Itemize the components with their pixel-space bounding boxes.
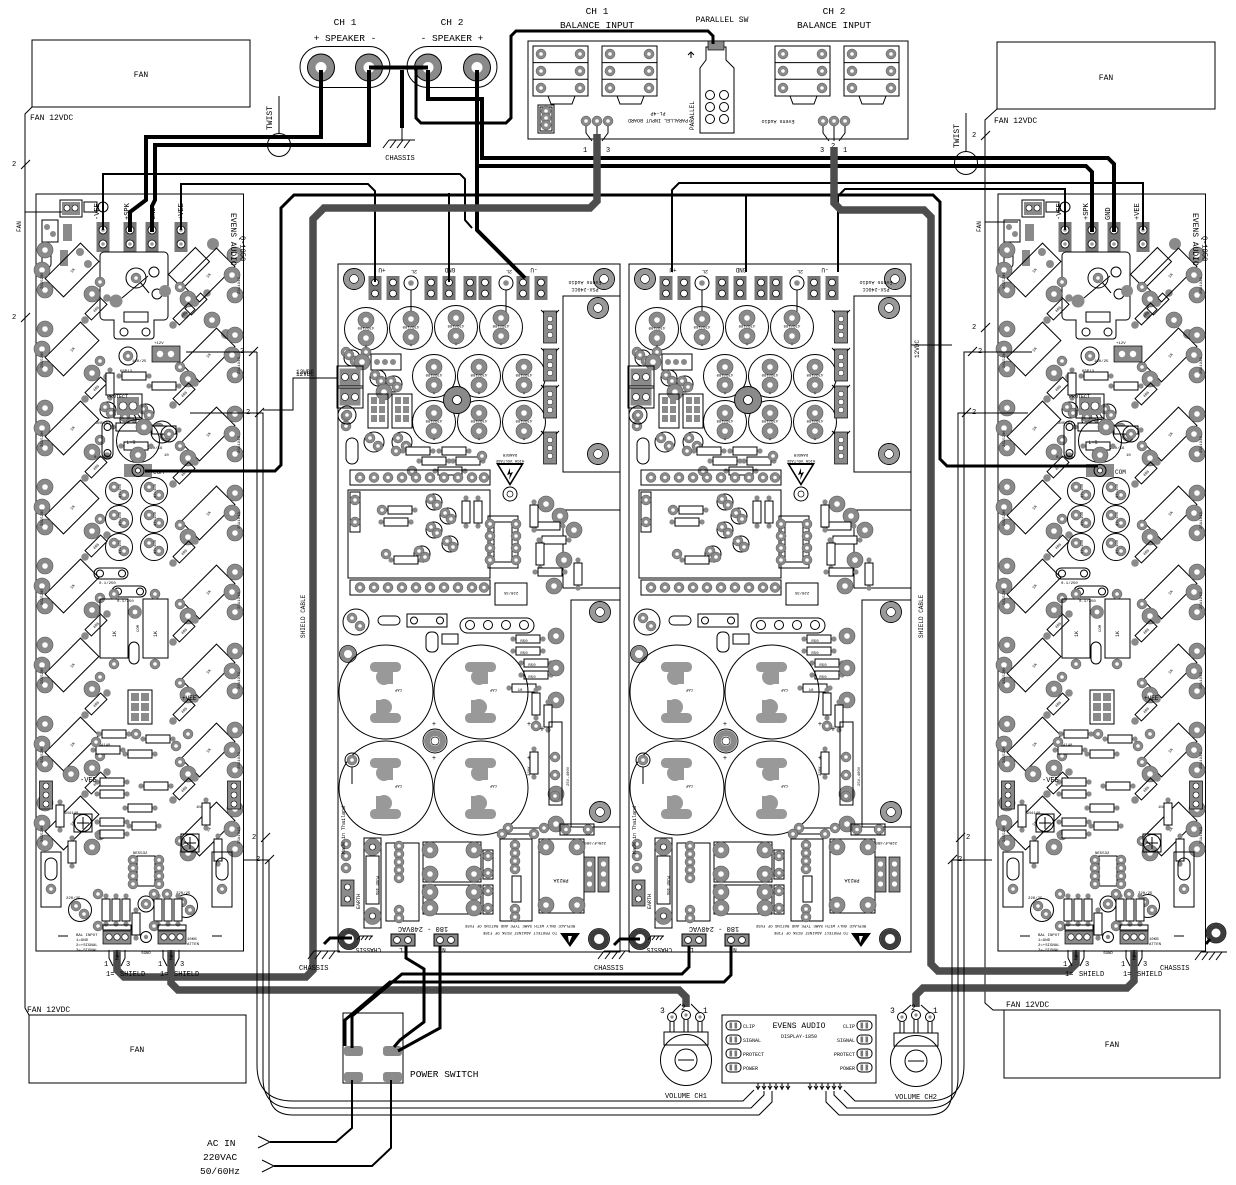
pins display header right <box>808 1083 842 1090</box>
pins right board atten header <box>1121 950 1162 979</box>
board PL-4P parallel input board outline <box>528 41 908 139</box>
svg-text:3=-SIGNAL: 3=-SIGNAL <box>1038 949 1060 953</box>
svg-text:2=+SIGNAL: 2=+SIGNAL <box>1038 944 1060 948</box>
svg-text:1: 1 <box>703 1007 708 1016</box>
svg-text:CHASSIS: CHASSIS <box>385 155 414 163</box>
svg-text:1: 1 <box>933 1007 938 1016</box>
svg-text:1=GND: 1=GND <box>76 939 89 943</box>
svg-text:2: 2 <box>681 1004 686 1013</box>
pins right board input header <box>1063 950 1104 979</box>
board power-supply left PSX-240CC <box>337 264 620 953</box>
svg-text:POWER: POWER <box>840 1066 855 1072</box>
svg-text:2: 2 <box>1074 955 1078 963</box>
svg-text:+VEE: +VEE <box>1144 695 1159 702</box>
connector XLR CH1-B <box>602 46 657 104</box>
connector CH2 speaker posts <box>407 47 497 88</box>
svg-text:PARALLEL SW: PARALLEL SW <box>696 16 749 25</box>
svg-text:Q-1850: Q-1850 <box>238 236 246 261</box>
led CLIP left <box>726 1021 755 1030</box>
svg-text:BAL INPUT: BAL INPUT <box>1038 934 1060 938</box>
led SIGNAL right <box>837 1035 872 1044</box>
svg-text:2=+SIGNAL: 2=+SIGNAL <box>76 944 98 948</box>
svg-text:SIGNAL: SIGNAL <box>837 1038 855 1044</box>
svg-text:3: 3 <box>1085 961 1089 969</box>
svg-text:SHIELD: SHIELD <box>1079 971 1104 979</box>
svg-text:2: 2 <box>115 955 119 963</box>
svg-text:BALANCE INPUT: BALANCE INPUT <box>560 20 634 31</box>
svg-text:2: 2 <box>252 834 256 842</box>
svg-text:FAN: FAN <box>16 221 23 232</box>
svg-text:3: 3 <box>890 1007 895 1016</box>
svg-text:CHASSIS: CHASSIS <box>594 965 623 973</box>
svg-text:FAN 12VDC: FAN 12VDC <box>1006 1001 1049 1010</box>
svg-text:FAN: FAN <box>1099 74 1114 83</box>
svg-text:2: 2 <box>256 856 260 864</box>
wire signal pair left aux <box>244 860 772 1115</box>
svg-text:POWER SWITCH: POWER SWITCH <box>410 1069 478 1080</box>
svg-text:3=-SIGNAL: 3=-SIGNAL <box>76 949 98 953</box>
svg-text:FAN 12VDC: FAN 12VDC <box>27 1006 70 1015</box>
svg-text:SHIELD: SHIELD <box>1137 971 1162 979</box>
svg-text:PROTECT: PROTECT <box>834 1052 855 1058</box>
svg-text:3: 3 <box>180 961 184 969</box>
wire fan left vertical <box>25 107 32 1015</box>
svg-text:SGND: SGND <box>141 952 151 956</box>
pins header CH1 out <box>581 116 613 155</box>
wire N left board to switch <box>398 946 440 1051</box>
svg-text:ATTEN: ATTEN <box>187 943 200 947</box>
svg-text:12VDC: 12VDC <box>914 340 921 358</box>
pins display header left <box>756 1083 790 1090</box>
svg-text:1: 1 <box>583 147 587 155</box>
wire 12VDC tap left <box>263 378 338 410</box>
svg-text:PROTECT: PROTECT <box>1069 394 1090 400</box>
wire signal pair right aux <box>826 860 992 1115</box>
svg-text:2: 2 <box>169 955 173 963</box>
wire left +VEE to +U <box>181 184 375 282</box>
svg-text:SHIELD: SHIELD <box>174 971 199 979</box>
switch PARALLEL SW body <box>700 41 734 133</box>
svg-text:FAN 12VDC: FAN 12VDC <box>994 117 1037 126</box>
svg-text:CHASSIS: CHASSIS <box>299 965 328 973</box>
connector CH1 speaker posts <box>300 47 390 88</box>
wire CH2- to right board GND <box>428 70 1114 232</box>
svg-text:SHIELD CABLE: SHIELD CABLE <box>300 594 307 638</box>
shield cable left board to volume CH1 <box>171 950 686 1007</box>
svg-text:2: 2 <box>978 348 982 356</box>
svg-text:ATTEN: ATTEN <box>1149 943 1162 947</box>
svg-text:L+R: L+R <box>126 440 135 446</box>
board channel right Q-1850 (mirrored) <box>996 194 1206 951</box>
svg-text:PARALLEL INPUT BOARD: PARALLEL INPUT BOARD <box>628 117 688 123</box>
potentiometer VOLUME CH1 <box>660 1004 712 1086</box>
pins left board atten header <box>158 950 199 979</box>
svg-text:CH 2: CH 2 <box>441 17 464 28</box>
svg-text:EVENS AUDIO: EVENS AUDIO <box>228 213 237 266</box>
svg-text:FAN: FAN <box>1105 1041 1120 1050</box>
wire-count slash 2 right mid <box>972 323 990 332</box>
svg-text:COM: COM <box>1115 469 1126 476</box>
wire signal pair left 12V <box>186 352 754 1101</box>
wire-count slashes right signals <box>968 347 982 356</box>
svg-text:CLIP: CLIP <box>843 1024 855 1030</box>
svg-text:2: 2 <box>246 409 250 417</box>
svg-text:Evens Audio: Evens Audio <box>761 118 794 124</box>
svg-text:1: 1 <box>104 961 108 969</box>
svg-text:+VEE: +VEE <box>182 695 197 702</box>
pins left board input header <box>104 950 145 979</box>
svg-text:3: 3 <box>606 147 610 155</box>
wire L right board to switch <box>352 946 689 1048</box>
svg-text:FAN: FAN <box>130 1046 145 1055</box>
svg-text:-VEE: -VEE <box>94 203 102 220</box>
wire-count slashes left signals <box>240 347 258 356</box>
svg-text:+VEE: +VEE <box>1134 203 1142 220</box>
potentiometer VOLUME CH2 <box>890 1004 942 1087</box>
svg-text:-VEE: -VEE <box>1042 777 1059 785</box>
led POWER right <box>840 1063 872 1072</box>
svg-text:-VEE: -VEE <box>1056 203 1064 220</box>
svg-text:VOLUME CH1: VOLUME CH1 <box>665 1093 707 1101</box>
switch power switch body <box>343 1013 403 1083</box>
board power-supply right PSX-240CC <box>628 264 911 953</box>
svg-text:PROTECT: PROTECT <box>743 1052 764 1058</box>
wire tap to left board fan connector <box>25 211 66 213</box>
svg-text:CH 1: CH 1 <box>586 6 609 17</box>
led SIGNAL left <box>726 1035 761 1044</box>
wire AC line 1 <box>270 1080 352 1142</box>
svg-text:+SPK: +SPK <box>1083 202 1091 220</box>
svg-text:BALANCE INPUT: BALANCE INPUT <box>797 20 871 31</box>
arrow AC line 2 <box>262 1160 274 1172</box>
wire CH1- to left board GND <box>152 70 369 232</box>
svg-text:3: 3 <box>126 961 130 969</box>
wire right +VEE to +U <box>672 183 1143 272</box>
svg-text:SHIELD CABLE: SHIELD CABLE <box>918 594 925 638</box>
svg-text:1: 1 <box>1063 961 1067 969</box>
ground chassis top <box>383 140 415 148</box>
svg-text:AC IN: AC IN <box>207 1138 236 1149</box>
wire parallel link bus to balance board <box>416 31 713 123</box>
wire COM link left-right <box>145 195 1098 471</box>
svg-text:10KB: 10KB <box>187 938 197 942</box>
wire CH2+ branch to right board +SPK <box>477 166 1092 232</box>
svg-text:2: 2 <box>12 314 16 322</box>
wire left GND to middle GND <box>448 193 450 282</box>
ground chassis mid-center <box>594 939 640 973</box>
wire 12VDC tap right <box>911 344 952 346</box>
svg-text:VOLUME CH2: VOLUME CH2 <box>895 1094 937 1102</box>
shield cable balance CH1 to left board input <box>117 134 597 977</box>
wire-count slash 2 left mid <box>12 313 30 322</box>
pins header CH2 out <box>818 116 850 155</box>
connector XLR CH1-A <box>533 46 588 104</box>
led PROTECT left <box>726 1049 764 1058</box>
connector XLR CH2-B <box>844 46 899 104</box>
ground chassis mid-left <box>299 938 352 973</box>
svg-text:EVENS AUDIO: EVENS AUDIO <box>1190 213 1199 266</box>
svg-text:PARALLEL: PARALLEL <box>689 101 696 130</box>
svg-text:GND: GND <box>1105 207 1113 220</box>
svg-text:CHASSIS: CHASSIS <box>1160 965 1189 973</box>
svg-text:L+R: L+R <box>1088 440 1097 446</box>
svg-text:FAN: FAN <box>134 71 149 80</box>
ground chassis right <box>1160 923 1227 973</box>
wire left -VEE to -U <box>103 174 472 230</box>
svg-text:CLIP: CLIP <box>743 1024 755 1030</box>
twist marker CH2 <box>955 113 978 175</box>
svg-text:1: 1 <box>1121 961 1125 969</box>
wire signal pair right protect <box>834 413 1028 1108</box>
wire signal pair left protect <box>190 413 764 1108</box>
wire tap to right board fan connector <box>985 221 1018 223</box>
wire-count slash 2 left top <box>12 160 30 169</box>
svg-text:-VEE: -VEE <box>80 777 97 785</box>
svg-text:Q-1850: Q-1850 <box>1200 236 1208 261</box>
svg-text:12VDC: 12VDC <box>296 369 314 376</box>
svg-text:SIGNAL: SIGNAL <box>743 1038 761 1044</box>
svg-text:BAL INPUT: BAL INPUT <box>76 934 98 938</box>
led CLIP right <box>843 1021 872 1030</box>
svg-text:PL-4P: PL-4P <box>650 110 665 116</box>
svg-text:1=: 1= <box>160 971 168 979</box>
wire N right board to switch <box>345 946 731 1046</box>
svg-text:2: 2 <box>972 132 976 140</box>
svg-text:2: 2 <box>958 856 962 864</box>
board channel left Q-1850 <box>34 194 244 951</box>
svg-text:POWER: POWER <box>743 1066 758 1072</box>
shield cable right board to volume CH2 <box>916 950 1134 1007</box>
wire CH2+ post to -U diagonal <box>477 70 525 278</box>
svg-text:SGND: SGND <box>1103 952 1113 956</box>
svg-text:SHIELD: SHIELD <box>120 971 145 979</box>
svg-text:2: 2 <box>966 834 970 842</box>
svg-text:3: 3 <box>820 147 824 155</box>
fan top-right <box>997 42 1215 109</box>
svg-text:1: 1 <box>843 147 847 155</box>
svg-text:2: 2 <box>972 409 976 417</box>
fan bottom-right <box>1004 1010 1220 1078</box>
connector XLR CH2-A <box>775 46 830 104</box>
svg-text:1=: 1= <box>1123 971 1131 979</box>
svg-text:+ SPEAKER -: + SPEAKER - <box>314 33 377 44</box>
svg-text:DISPLAY-1850: DISPLAY-1850 <box>781 1034 817 1040</box>
svg-text:2: 2 <box>911 1004 916 1013</box>
wire CH1+ to left board +SPK <box>130 70 321 232</box>
svg-text:50/60Hz: 50/60Hz <box>200 1166 240 1177</box>
svg-text:2: 2 <box>12 161 16 169</box>
svg-text:2: 2 <box>972 324 976 332</box>
svg-text:PROTECT: PROTECT <box>107 394 128 400</box>
svg-text:TWIST: TWIST <box>953 124 962 148</box>
wire L left board to switch <box>394 946 424 1047</box>
svg-text:1=GND: 1=GND <box>1038 939 1051 943</box>
svg-text:CH 2: CH 2 <box>823 6 846 17</box>
board display DISPLAY-1850 <box>722 1015 876 1083</box>
svg-text:2: 2 <box>240 348 244 356</box>
wire-count slash 2 right top <box>972 131 990 140</box>
wire AC line 2 <box>274 1080 391 1166</box>
wire right GND to middle GND <box>745 196 747 272</box>
twist marker CH1 <box>268 96 291 157</box>
wire signal pair right 12V <box>844 352 1032 1101</box>
svg-text:- SPEAKER +: - SPEAKER + <box>421 33 484 44</box>
svg-text:FAN: FAN <box>976 221 983 232</box>
svg-text:1: 1 <box>158 961 162 969</box>
fan bottom-left <box>29 1015 246 1083</box>
svg-text:220VAC: 220VAC <box>203 1152 238 1163</box>
svg-text:2: 2 <box>1132 955 1136 963</box>
svg-text:3: 3 <box>1143 961 1147 969</box>
svg-text:TWIST: TWIST <box>266 106 275 130</box>
led POWER left <box>726 1063 758 1072</box>
wire fan right vertical <box>985 109 1004 1010</box>
wire chassis stub <box>400 70 404 128</box>
svg-text:3: 3 <box>660 1007 665 1016</box>
connector 4-pin left <box>538 105 554 133</box>
arrow AC line 1 <box>258 1136 270 1148</box>
svg-text:FAN 12VDC: FAN 12VDC <box>30 114 73 123</box>
fan top-left <box>32 40 250 107</box>
svg-text:1=: 1= <box>1065 971 1073 979</box>
shield cable balance CH2 to right board input <box>834 147 1076 971</box>
label PARALLEL vertical with arrow <box>688 52 696 130</box>
led PROTECT right <box>834 1049 872 1058</box>
svg-text:CH 1: CH 1 <box>334 17 357 28</box>
svg-text:EVENS AUDIO: EVENS AUDIO <box>773 1022 826 1031</box>
wire bus CH1- to CH2- <box>369 66 428 70</box>
wire right -VEE to -U <box>838 189 1065 272</box>
svg-text:1=: 1= <box>106 971 114 979</box>
svg-text:10KB: 10KB <box>1149 938 1159 942</box>
